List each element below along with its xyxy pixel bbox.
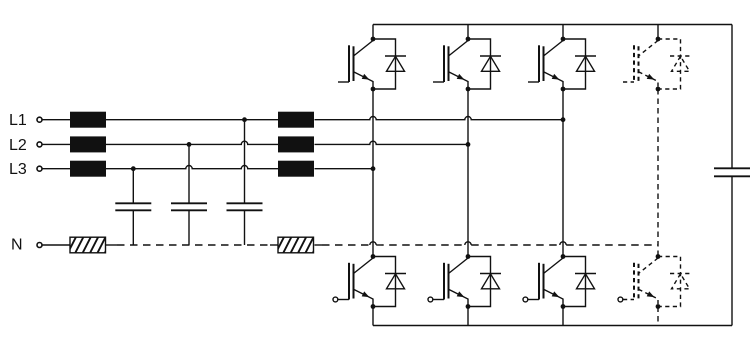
transistor Q7 — [523, 258, 563, 307]
wire — [315, 168, 374, 170]
wire — [657, 25, 659, 40]
wire — [315, 116, 564, 119]
junction — [187, 142, 192, 147]
capacitor C3 — [227, 120, 263, 245]
node phase leg3 — [561, 87, 566, 92]
diode D6 — [468, 257, 501, 307]
transistor Q5 — [333, 258, 373, 307]
node phase leg2 — [466, 87, 471, 92]
transistor Q3 — [528, 41, 563, 90]
wire — [372, 25, 374, 40]
svg-text:L3: L3 — [9, 161, 27, 178]
wire — [117, 244, 270, 246]
wire — [270, 244, 278, 246]
inductor L2a — [70, 136, 106, 152]
transistor Q1 — [338, 41, 373, 90]
terminal L2 — [37, 142, 42, 147]
node collector bottom leg2 — [466, 254, 471, 259]
inductor L2b — [278, 136, 314, 152]
diode D2 — [468, 39, 501, 89]
wire — [106, 141, 278, 144]
wire — [657, 307, 659, 326]
wire — [106, 119, 278, 121]
transistor Q6 — [428, 258, 468, 307]
node phase leg4 — [656, 87, 661, 92]
node emitter bottom leg1 — [371, 304, 376, 309]
inductor L1a — [70, 112, 106, 128]
junction — [466, 142, 471, 147]
wire — [315, 244, 323, 246]
node collector top leg1 — [371, 37, 376, 42]
junction — [131, 166, 136, 171]
terminal L3 — [37, 166, 42, 171]
wire +DC rail — [373, 24, 732, 26]
svg-text:L1: L1 — [9, 112, 27, 129]
terminal L1 — [37, 117, 42, 122]
node collector bottom leg3 — [561, 254, 566, 259]
node collector top leg4 — [656, 37, 661, 42]
wire — [562, 307, 564, 326]
node collector top leg3 — [561, 37, 566, 42]
node collector bottom leg1 — [371, 254, 376, 259]
diode D7 — [563, 257, 596, 307]
wire — [106, 166, 278, 169]
transistor Q4 — [623, 41, 658, 90]
diode D4 — [658, 39, 691, 89]
diode D5 — [373, 257, 406, 307]
wire — [562, 25, 564, 40]
junction — [242, 117, 247, 122]
wire — [731, 25, 733, 169]
junction — [371, 166, 376, 171]
wire — [731, 176, 733, 325]
inductor L3b — [278, 161, 314, 177]
impedance Z1 — [60, 236, 113, 254]
wire — [467, 307, 469, 326]
transistor Q8 — [618, 258, 658, 307]
wire — [322, 242, 658, 245]
junction — [561, 117, 566, 122]
diode D1 — [373, 39, 406, 89]
transistor Q2 — [433, 41, 468, 90]
wire — [657, 89, 659, 257]
svg-text:N: N — [11, 237, 23, 254]
diode D3 — [563, 39, 596, 89]
node emitter bottom leg4 — [656, 304, 661, 309]
capacitor C4 — [714, 168, 750, 176]
capacitor C1 — [115, 169, 151, 245]
wire — [315, 141, 469, 144]
impedance Z2 — [268, 236, 321, 254]
inductor L3a — [70, 161, 106, 177]
inductor L1b — [278, 112, 314, 128]
node phase leg1 — [371, 87, 376, 92]
node collector top leg2 — [466, 37, 471, 42]
node emitter bottom leg3 — [561, 304, 566, 309]
wire — [372, 307, 374, 326]
terminal N — [37, 243, 42, 248]
wire — [42, 119, 70, 121]
wire — [42, 168, 70, 170]
wire — [42, 244, 70, 246]
wire — [562, 89, 564, 257]
node emitter bottom leg2 — [466, 304, 471, 309]
wire — [467, 25, 469, 40]
capacitor C2 — [171, 144, 207, 245]
diode D8 — [658, 257, 691, 307]
wire — [467, 89, 469, 257]
wire -DC rail — [373, 325, 732, 327]
svg-text:L2: L2 — [9, 137, 27, 154]
node collector bottom leg4 — [656, 254, 661, 259]
wire — [106, 244, 117, 246]
wire — [372, 89, 374, 257]
wire — [42, 143, 70, 145]
